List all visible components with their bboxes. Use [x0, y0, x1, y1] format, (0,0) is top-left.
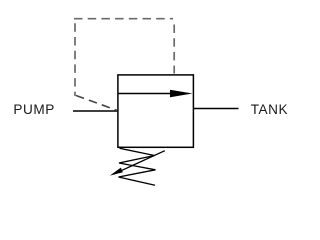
pilot line top horizontal (dashed): [74, 18, 173, 20]
wire tank outlet line: [194, 108, 239, 110]
svg-text:TANK: TANK: [251, 102, 288, 117]
adjustability arrow shaft: [114, 151, 165, 175]
flow path arrow shaft inside valve: [118, 93, 172, 95]
valve envelope box: [118, 75, 193, 147]
flow path arrowhead: [170, 90, 193, 98]
svg-text:PUMP: PUMP: [13, 102, 54, 117]
pilot line diagonal tap (dashed): [76, 96, 118, 111]
pilot line left vertical (dashed): [74, 23, 76, 96]
spring (zigzag): [119, 148, 156, 185]
pilot line right vertical (dashed): [173, 25, 175, 74]
adjustability arrowhead: [110, 168, 123, 176]
wire pump inlet line: [73, 110, 118, 112]
